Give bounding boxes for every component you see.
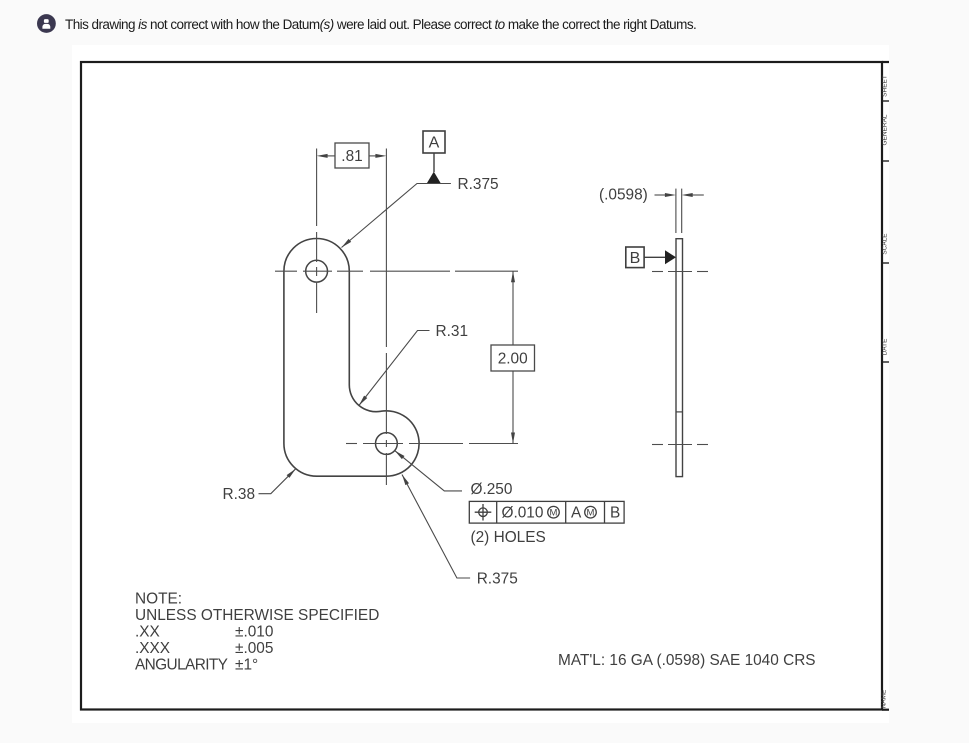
svg-text:NAME: NAME <box>881 689 888 708</box>
svg-text:NOTE:: NOTE: <box>135 591 182 608</box>
svg-text:M: M <box>550 507 558 518</box>
svg-text:A: A <box>571 505 582 522</box>
svg-text:Ø.250: Ø.250 <box>471 481 513 498</box>
svg-text:B: B <box>630 250 641 267</box>
svg-text:.XXX: .XXX <box>135 640 170 657</box>
svg-text:SCALE: SCALE <box>882 233 889 255</box>
svg-text:R.31: R.31 <box>436 323 469 340</box>
svg-text:±1°: ±1° <box>235 657 258 674</box>
svg-text:(.0598): (.0598) <box>599 187 648 204</box>
svg-text:A: A <box>429 135 440 152</box>
svg-text:2.00: 2.00 <box>498 351 528 368</box>
svg-text:M: M <box>587 507 595 518</box>
svg-text:.XX: .XX <box>135 624 160 641</box>
svg-text:UNLESS OTHERWISE SPECIFIED: UNLESS OTHERWISE SPECIFIED <box>135 607 379 624</box>
svg-text:SHEET: SHEET <box>882 75 889 97</box>
svg-text:±.010: ±.010 <box>235 624 273 641</box>
svg-text:R.375: R.375 <box>477 571 518 588</box>
svg-text:(2) HOLES: (2) HOLES <box>471 529 546 546</box>
svg-text:R.375: R.375 <box>458 176 499 193</box>
svg-text:±.005: ±.005 <box>235 640 273 657</box>
svg-text:B: B <box>610 505 620 522</box>
svg-text:DATE: DATE <box>882 338 889 356</box>
svg-text:GENERAL: GENERAL <box>882 114 889 145</box>
svg-text:ANGULARITY: ANGULARITY <box>135 657 228 674</box>
svg-text:.81: .81 <box>341 148 362 165</box>
svg-text:Ø.010: Ø.010 <box>502 505 544 522</box>
svg-text:MAT'L: 16 GA (.0598) SAE 1040: MAT'L: 16 GA (.0598) SAE 1040 CRS <box>558 652 816 669</box>
svg-text:R.38: R.38 <box>223 486 256 503</box>
